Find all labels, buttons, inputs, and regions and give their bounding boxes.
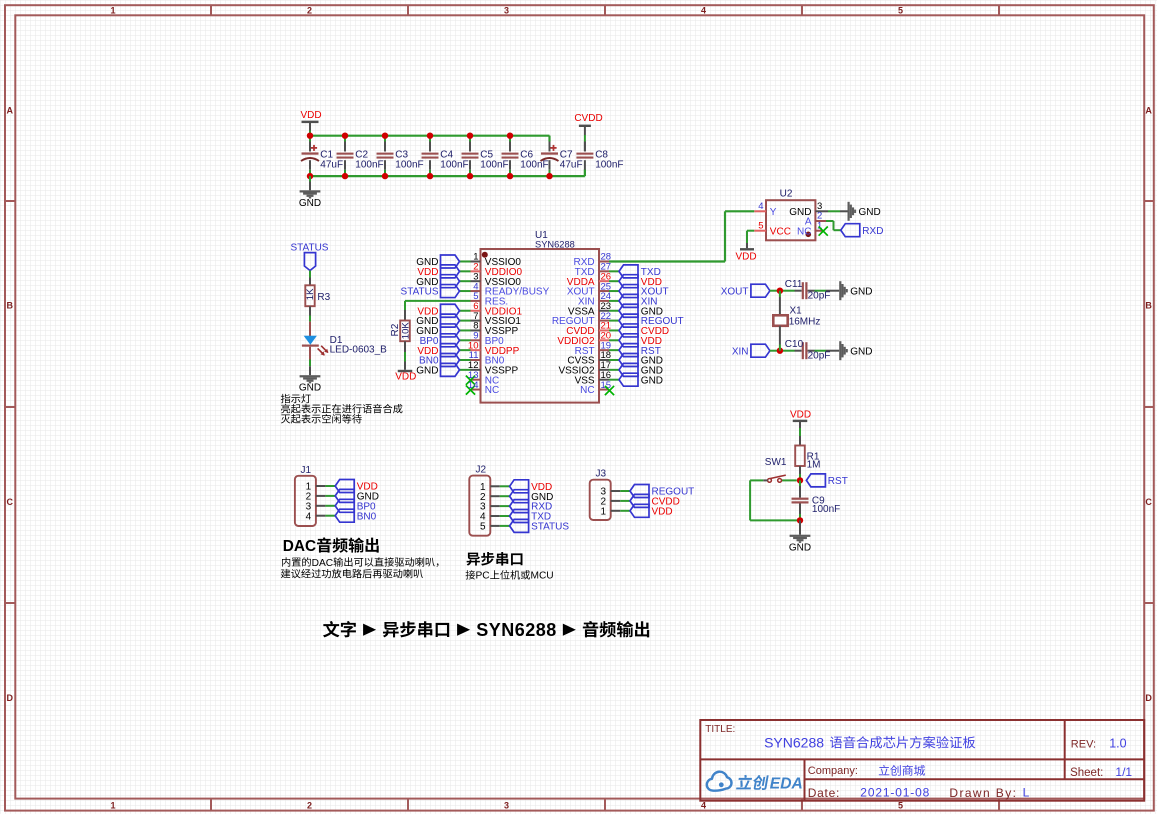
svg-text:GND: GND [416,365,438,376]
svg-text:47uF: 47uF [320,159,343,170]
svg-text:CVDD: CVDD [574,113,602,124]
svg-text:Company:: Company: [808,765,858,777]
svg-text:Date:: Date: [808,786,840,800]
svg-text:1/1: 1/1 [1115,765,1132,779]
svg-text:REV:: REV: [1071,738,1096,750]
svg-text:100nF: 100nF [480,159,508,170]
svg-text:GND: GND [299,198,321,209]
svg-text:5: 5 [758,220,763,231]
svg-text:DAC: DAC [283,538,316,555]
svg-text:SW1: SW1 [765,457,787,468]
svg-text:C11: C11 [785,279,803,290]
svg-text:1: 1 [110,6,115,16]
svg-text:Y: Y [770,207,777,218]
svg-text:100nF: 100nF [812,504,840,515]
svg-text:3: 3 [504,6,509,16]
svg-text:1: 1 [110,800,115,810]
svg-text:15: 15 [601,380,612,391]
svg-text:J3: J3 [596,469,607,480]
svg-text:5: 5 [898,800,903,810]
svg-text:NC: NC [797,226,811,237]
svg-text:B: B [7,301,14,311]
svg-text:1K: 1K [305,288,316,300]
svg-text:J1: J1 [301,465,312,476]
svg-text:20pF: 20pF [808,291,831,302]
svg-text:C10: C10 [785,339,804,350]
svg-text:Drawn By:: Drawn By: [949,786,1017,800]
svg-text:SYN6288: SYN6288 [476,620,557,640]
svg-text:C: C [1145,497,1152,507]
svg-text:B: B [1145,301,1152,311]
svg-text:STATUS: STATUS [401,287,439,298]
svg-text:TITLE:: TITLE: [705,724,735,735]
svg-text:LED-0603_B: LED-0603_B [330,345,388,356]
svg-text:100nF: 100nF [440,159,468,170]
svg-text:GND: GND [299,383,321,394]
svg-text:BN0: BN0 [357,511,377,522]
svg-text:4: 4 [758,201,763,212]
svg-text:NC: NC [485,385,499,396]
svg-text:D: D [7,693,14,703]
svg-text:SYN6288: SYN6288 [764,734,824,750]
svg-text:16MHz: 16MHz [789,316,821,327]
svg-text:X1: X1 [790,305,803,316]
svg-text:100nF: 100nF [355,159,383,170]
svg-text:GND: GND [641,375,663,386]
svg-text:A: A [7,105,14,115]
svg-text:VDD: VDD [300,110,321,121]
svg-text:5: 5 [898,6,903,16]
svg-text:14: 14 [468,380,479,391]
svg-text:2: 2 [307,6,312,16]
svg-text:A: A [1145,105,1152,115]
svg-text:PC: PC [476,571,490,582]
svg-text:Sheet:: Sheet: [1070,767,1103,779]
svg-text:MCU: MCU [530,571,553,582]
svg-text:J2: J2 [476,465,487,476]
svg-text:XIN: XIN [732,346,749,357]
svg-text:2: 2 [307,800,312,810]
svg-text:XOUT: XOUT [721,286,749,297]
svg-text:NC: NC [580,385,594,396]
svg-text:4: 4 [306,511,312,522]
svg-text:2021-01-08: 2021-01-08 [860,786,930,800]
svg-text:1.0: 1.0 [1109,736,1126,750]
svg-text:GND: GND [850,347,872,358]
svg-text:D: D [1145,693,1152,703]
svg-text:100nF: 100nF [395,159,423,170]
svg-text:GND: GND [859,207,881,218]
svg-text:RST: RST [828,476,848,487]
svg-text:STATUS: STATUS [531,522,569,533]
svg-text:1: 1 [600,506,606,517]
svg-text:VDD: VDD [652,506,673,517]
svg-text:100nF: 100nF [595,159,623,170]
svg-text:4: 4 [701,6,706,16]
svg-text:GND: GND [789,543,811,554]
svg-text:EDA: EDA [770,776,803,793]
svg-text:VDD: VDD [790,410,811,421]
svg-text:GND: GND [850,287,872,298]
svg-text:5: 5 [480,522,486,533]
svg-text:U2: U2 [780,189,793,200]
svg-text:1M: 1M [807,459,821,470]
svg-text:10K: 10K [400,322,411,340]
svg-text:C: C [7,497,14,507]
svg-text:4: 4 [701,800,706,810]
svg-text:R3: R3 [317,292,330,303]
svg-text:SYN6288: SYN6288 [535,239,575,249]
svg-text:47uF: 47uF [560,159,583,170]
svg-text:3: 3 [504,800,509,810]
svg-text:DAC: DAC [312,558,334,569]
svg-text:L: L [1023,786,1030,800]
svg-text:VDD: VDD [735,252,756,263]
svg-text:20pF: 20pF [808,351,831,362]
svg-text:VCC: VCC [770,226,791,237]
svg-text:VDD: VDD [395,372,416,383]
svg-text:100nF: 100nF [520,159,548,170]
svg-text:RXD: RXD [862,226,883,237]
